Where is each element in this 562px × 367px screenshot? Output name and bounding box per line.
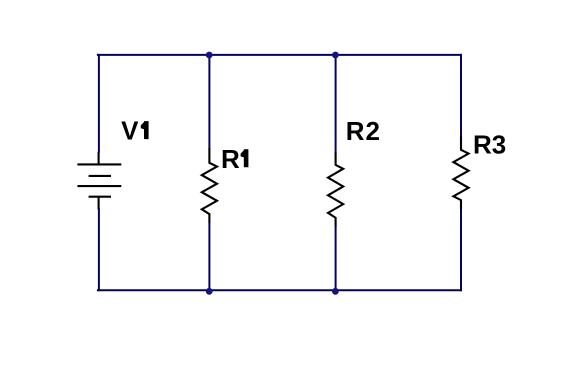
svg-text:V: V	[121, 116, 139, 146]
svg-text:R: R	[221, 144, 240, 174]
svg-text:R3: R3	[473, 130, 506, 160]
svg-text:R2: R2	[346, 116, 381, 146]
